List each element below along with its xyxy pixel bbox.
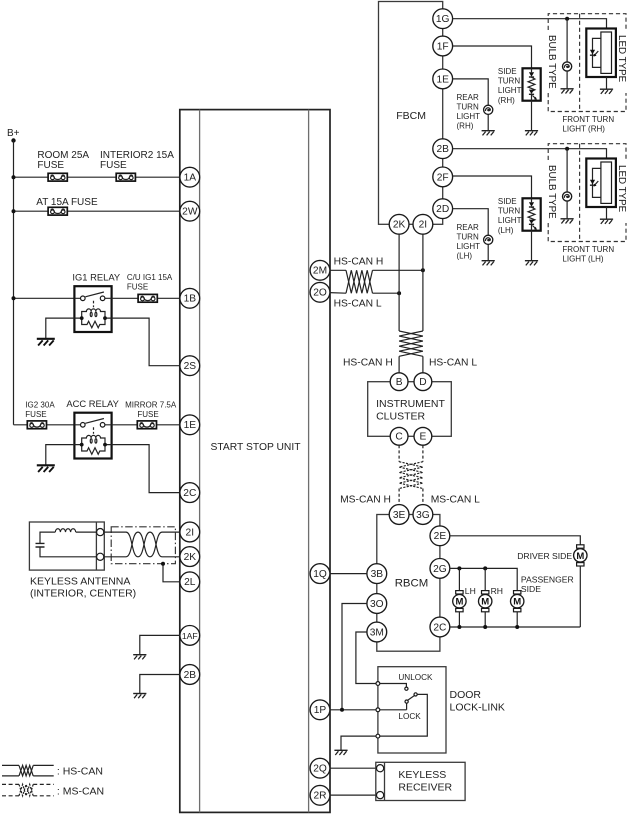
svg-text:2I: 2I xyxy=(186,527,195,538)
RBCM pin 2C xyxy=(430,617,450,637)
wire B+ rail xyxy=(13,141,15,425)
twisted pair antenna to 2I/2K xyxy=(104,532,180,557)
FBCM pin 2F xyxy=(433,167,453,187)
svg-text:LIGHT: LIGHT xyxy=(498,86,522,95)
svg-text:2M: 2M xyxy=(313,266,327,277)
unit pin 2I xyxy=(180,522,200,542)
svg-text:KEYLESS ANTENNA: KEYLESS ANTENNA xyxy=(30,575,130,587)
dashed box bulb/led type (RH) xyxy=(548,14,626,112)
svg-text:IG2 30A: IG2 30A xyxy=(25,401,55,410)
unit pin 2M xyxy=(310,260,330,280)
svg-text:LIGHT: LIGHT xyxy=(498,216,522,225)
bulb rear turn light (LH) xyxy=(484,235,493,244)
svg-text:TURN: TURN xyxy=(457,102,479,111)
unit pin 2O xyxy=(310,282,330,302)
wire FBCM to front turn light (LH) xyxy=(452,149,606,159)
unit pin 1A xyxy=(180,167,200,187)
wire ACC coil to 2C xyxy=(112,445,181,493)
unit pin 2S xyxy=(180,356,200,376)
svg-text:2K: 2K xyxy=(184,552,197,563)
antenna terminal xyxy=(97,553,104,560)
wire switch to lock return xyxy=(380,694,428,736)
unit pin 1AF xyxy=(180,626,200,646)
twisted pair HS-CAN xyxy=(346,270,373,293)
junction 1P / 3O xyxy=(340,708,344,712)
RBCM pin 2G xyxy=(430,559,450,579)
FBCM pin 2B xyxy=(433,139,453,159)
svg-text:3E: 3E xyxy=(393,510,406,521)
motor door lock LH xyxy=(453,591,466,612)
svg-text:2K: 2K xyxy=(393,220,406,231)
svg-text:REAR: REAR xyxy=(457,93,479,102)
antenna terminal xyxy=(97,529,104,536)
ground bulb (RH) xyxy=(561,89,574,94)
svg-text:CLUSTER: CLUSTER xyxy=(376,411,425,423)
junction bulb branch (LH) xyxy=(565,147,569,151)
LED unit front turn light (LH) xyxy=(586,159,616,208)
wire unlock contact to switch xyxy=(380,684,407,688)
svg-text:FUSE: FUSE xyxy=(37,160,64,171)
fuse MIRROR 7.5A xyxy=(137,421,156,429)
wire common to switch pivot xyxy=(380,703,407,710)
FBCM pin 2K xyxy=(389,214,409,234)
wire FBCM to rear turn light (RH) xyxy=(452,79,488,105)
wire capacitor to pin xyxy=(40,547,97,557)
svg-text:LOCK: LOCK xyxy=(398,712,421,721)
ground ACC coil xyxy=(37,465,55,472)
wire driver motor to 2C row xyxy=(579,566,581,628)
wire 2Q to receiver xyxy=(330,767,377,769)
svg-text:1P: 1P xyxy=(314,705,327,716)
fuse ROOM 25A xyxy=(48,173,67,181)
fuse AT 15A xyxy=(48,207,67,215)
unit pin 2B xyxy=(180,665,200,685)
svg-text:(RH): (RH) xyxy=(457,122,474,131)
start stop unit U1 box xyxy=(180,110,330,813)
svg-text:BULB TYPE: BULB TYPE xyxy=(546,165,557,219)
svg-text:2C: 2C xyxy=(183,488,196,499)
svg-text:TURN: TURN xyxy=(498,77,520,86)
svg-text:REAR: REAR xyxy=(457,223,479,232)
unit pin 1Q xyxy=(310,564,330,584)
svg-text:SIDE: SIDE xyxy=(498,67,517,76)
wire rear bulb to ground xyxy=(487,244,489,260)
fuse INTERIOR2 15A xyxy=(116,173,135,181)
ground 2B xyxy=(133,694,146,699)
shield box (dash-dot) xyxy=(111,527,175,564)
unit pin 1P xyxy=(310,700,330,720)
FBCM box xyxy=(379,2,443,225)
motor door lock RH xyxy=(479,591,492,612)
wire side light to ground xyxy=(531,231,533,261)
wire FBCM 2K down xyxy=(398,234,400,331)
wire 2G to motors xyxy=(450,568,518,590)
svg-text:3G: 3G xyxy=(416,510,430,521)
svg-text:SIDE: SIDE xyxy=(498,197,517,206)
wire 2O HS-CAN L xyxy=(330,292,346,295)
side turn light unit (LH) xyxy=(523,198,541,230)
svg-text:KEYLESS: KEYLESS xyxy=(398,769,446,781)
ground LED (RH) xyxy=(600,89,613,94)
svg-text:IG1 RELAY: IG1 RELAY xyxy=(72,271,121,282)
svg-text:2S: 2S xyxy=(184,361,197,372)
svg-text:LH: LH xyxy=(465,586,476,596)
keyless antenna box xyxy=(29,522,104,570)
wire HS-CAN L to node xyxy=(373,292,400,294)
door lock-link terminal xyxy=(376,682,380,686)
svg-text:2I: 2I xyxy=(419,220,428,231)
wire cluster C down dashed xyxy=(398,445,400,462)
svg-text:(RH): (RH) xyxy=(498,96,515,105)
wire 1P to lock common xyxy=(330,709,376,711)
wire fuse row to 1A xyxy=(14,176,181,178)
wire 2L to shield xyxy=(163,564,180,582)
FBCM pin 1E xyxy=(433,69,453,89)
svg-text:B: B xyxy=(396,377,403,388)
wire xyxy=(2,775,54,777)
svg-text:TURN: TURN xyxy=(457,232,479,241)
svg-text:PASSENGER: PASSENGER xyxy=(521,574,574,584)
svg-text:1E: 1E xyxy=(436,74,449,85)
wire 2M HS-CAN H xyxy=(330,269,346,271)
wire cluster E down dashed xyxy=(422,445,424,462)
wire to cluster D xyxy=(422,356,424,373)
ground rear light (LH) xyxy=(482,261,495,266)
svg-text:2Q: 2Q xyxy=(313,764,327,775)
svg-text:M: M xyxy=(513,597,521,608)
svg-text:AT 15A FUSE: AT 15A FUSE xyxy=(36,197,98,208)
switch pivot contact xyxy=(405,700,408,703)
svg-text:C: C xyxy=(395,432,402,443)
RBCM pin 3G xyxy=(413,505,433,525)
svg-text:START STOP UNIT: START STOP UNIT xyxy=(211,442,302,453)
svg-text:2D: 2D xyxy=(436,204,449,215)
relay ACC xyxy=(74,413,111,459)
node B+ dot xyxy=(11,138,15,142)
ground side light (RH) xyxy=(525,131,538,136)
motor door lock driver side xyxy=(574,545,587,566)
keyless receiver box xyxy=(376,762,465,800)
svg-text:MS-CAN L: MS-CAN L xyxy=(431,494,480,505)
wire to RH motor xyxy=(484,568,486,590)
cluster pin C xyxy=(390,427,408,445)
motor door lock passenger side xyxy=(511,591,524,612)
wire 2E to driver motor xyxy=(450,536,581,545)
wire to LH motor xyxy=(458,568,460,590)
ground rear light (RH) xyxy=(482,131,495,136)
door lock-link terminal xyxy=(376,734,380,738)
wire FBCM to side turn light (RH) xyxy=(452,46,531,68)
svg-text:B+: B+ xyxy=(7,128,20,139)
wire ACC relay to 1E xyxy=(112,424,181,426)
junction 2G / LH motor xyxy=(457,566,461,570)
svg-text:FUSE: FUSE xyxy=(137,410,158,419)
svg-text:1F: 1F xyxy=(437,41,449,52)
unit pin 2R xyxy=(310,785,330,805)
svg-text:3B: 3B xyxy=(371,569,384,580)
wire LH motor down xyxy=(458,612,460,627)
svg-text:TURN: TURN xyxy=(498,207,520,216)
fuse IG2 30A xyxy=(27,421,46,429)
legend MS-CAN twist xyxy=(19,784,33,795)
junction shield / 2L xyxy=(161,562,165,566)
legend HS-CAN wire pair xyxy=(2,764,54,766)
svg-text:LIGHT: LIGHT xyxy=(457,242,481,251)
wire LED to ground xyxy=(606,207,608,219)
svg-text:RH: RH xyxy=(491,586,503,596)
svg-text:1E: 1E xyxy=(184,420,197,431)
unit pin 1E xyxy=(180,415,200,435)
svg-text:3O: 3O xyxy=(370,599,384,610)
svg-text:2G: 2G xyxy=(433,564,447,575)
wire B+ to ACC relay xyxy=(14,424,75,426)
svg-text:FRONT TURN: FRONT TURN xyxy=(562,245,614,254)
door lock-link box xyxy=(378,667,446,753)
wire to RBCM 3E dashed xyxy=(398,489,400,506)
wire 2B to ground xyxy=(140,675,180,694)
wire AT fuse row to 2W xyxy=(14,210,181,212)
junction 2C / passenger motor xyxy=(515,625,519,629)
svg-text:FBCM: FBCM xyxy=(396,110,426,122)
svg-text:HS-CAN H: HS-CAN H xyxy=(343,358,393,369)
wire 3M to unlock contact xyxy=(356,632,376,684)
svg-text:1Q: 1Q xyxy=(313,569,327,580)
instrument cluster box xyxy=(368,382,452,437)
junction 2G / RH motor xyxy=(483,566,487,570)
svg-text:2C: 2C xyxy=(433,622,446,633)
FBCM pin 1G xyxy=(433,9,453,29)
svg-text:RECEIVER: RECEIVER xyxy=(398,781,452,793)
wire HS-CAN H to node xyxy=(373,269,423,271)
svg-text:: MS-CAN: : MS-CAN xyxy=(57,786,104,798)
dashed box bulb/led type (LH) xyxy=(548,144,626,242)
svg-text:LED TYPE: LED TYPE xyxy=(616,35,627,83)
wire 3O to lock common xyxy=(342,604,367,710)
wire coil to capacitor xyxy=(40,532,55,543)
switch moving contact xyxy=(414,693,417,696)
wire FBCM to front turn light (RH) xyxy=(452,19,606,29)
svg-text:2F: 2F xyxy=(437,172,449,183)
svg-text:LOCK-LINK: LOCK-LINK xyxy=(450,702,505,714)
unit pin 2L xyxy=(180,572,200,592)
junction B+ / 1A row xyxy=(12,175,16,179)
wire 2R to receiver xyxy=(330,794,377,796)
svg-text:MS-CAN H: MS-CAN H xyxy=(340,494,391,505)
wire RH motor down xyxy=(484,612,486,627)
wire IG1 relay to 1B xyxy=(112,297,181,299)
junction HS-CAN L xyxy=(397,291,401,295)
svg-text:LIGHT: LIGHT xyxy=(457,112,481,121)
ground 1AF xyxy=(133,655,146,660)
ground side light (LH) xyxy=(525,261,538,266)
svg-text:M: M xyxy=(576,551,584,562)
svg-text:UNLOCK: UNLOCK xyxy=(398,673,433,682)
svg-text:FUSE: FUSE xyxy=(100,160,127,171)
RBCM pin 3M xyxy=(367,622,387,642)
wire rear bulb to ground xyxy=(487,114,489,130)
legend MS-CAN wire pair xyxy=(2,784,54,795)
svg-text:1G: 1G xyxy=(436,14,450,25)
svg-text:RBCM: RBCM xyxy=(395,578,429,590)
fuse C/U IG1 15A xyxy=(138,294,157,302)
svg-text:C/U IG1 15A: C/U IG1 15A xyxy=(127,273,173,282)
svg-text:2R: 2R xyxy=(313,791,326,802)
side turn light unit (RH) xyxy=(523,68,541,100)
RBCM pin 2E xyxy=(430,526,450,546)
svg-text:LIGHT (LH): LIGHT (LH) xyxy=(562,255,604,264)
svg-text:1A: 1A xyxy=(184,173,197,184)
switch contact xyxy=(405,687,408,690)
antenna coil L1 xyxy=(55,529,96,532)
unit pin 2K xyxy=(180,547,200,567)
RBCM pin 3B xyxy=(367,564,387,584)
bulb front turn light (LH) xyxy=(563,192,572,201)
switch blade xyxy=(408,696,415,701)
junction bulb branch (RH) xyxy=(565,17,569,21)
svg-text:M: M xyxy=(481,597,489,608)
FBCM pin 1F xyxy=(433,36,453,56)
svg-text:FUSE: FUSE xyxy=(127,283,148,292)
svg-text:HS-CAN L: HS-CAN L xyxy=(429,358,477,369)
ground bulb (LH) xyxy=(561,219,574,224)
bulb front turn light (RH) xyxy=(563,62,572,71)
wire IG1 coil to ground xyxy=(46,318,75,339)
wire 2C common xyxy=(450,626,581,628)
svg-text:2E: 2E xyxy=(434,531,447,542)
wire IG1 coil to 2S xyxy=(112,318,181,366)
svg-text:(INTERIOR, CENTER): (INTERIOR, CENTER) xyxy=(30,587,136,599)
svg-text:HS-CAN L: HS-CAN L xyxy=(334,299,382,310)
junction B+ / IG1 row xyxy=(12,296,16,300)
wire B+ to IG1 relay xyxy=(14,297,75,299)
door lock-link terminal xyxy=(376,708,380,712)
junction 2C / LH motor xyxy=(457,625,461,629)
wire passenger motor down xyxy=(516,612,518,627)
junction 2C / RH motor xyxy=(483,625,487,629)
cluster pin B xyxy=(390,373,408,391)
wire bulb to ground xyxy=(566,71,568,88)
wire to bulb (LH) xyxy=(566,149,568,192)
wire to RBCM 3G dashed xyxy=(422,489,424,506)
svg-text:M: M xyxy=(455,597,463,608)
unit pin 2Q xyxy=(310,758,330,778)
svg-text:E: E xyxy=(420,432,427,443)
wire side light to ground xyxy=(531,101,533,131)
RBCM pin 3O xyxy=(367,594,387,614)
svg-text:BULB TYPE: BULB TYPE xyxy=(546,35,557,89)
svg-text:1AF: 1AF xyxy=(182,631,198,641)
svg-text:2B: 2B xyxy=(184,670,197,681)
RBCM pin 3E xyxy=(389,505,409,525)
unit pin 2C xyxy=(180,483,200,503)
ground IG1 coil xyxy=(37,339,55,346)
wire 1AF to ground xyxy=(140,635,180,654)
svg-text:(LH): (LH) xyxy=(498,226,514,235)
FBCM pin 2D xyxy=(433,199,453,219)
LED unit front turn light (RH) xyxy=(586,29,616,78)
twisted pair MS-CAN xyxy=(399,462,423,489)
legend HS-CAN twist xyxy=(19,765,33,776)
cluster pin D xyxy=(414,373,432,391)
svg-text:DRIVER SIDE: DRIVER SIDE xyxy=(517,551,572,561)
svg-text:MIRROR 7.5A: MIRROR 7.5A xyxy=(125,401,177,410)
wire FBCM to side turn light (LH) xyxy=(452,176,531,198)
receiver terminal xyxy=(377,792,384,799)
relay IG1 xyxy=(74,286,111,332)
receiver terminal xyxy=(377,765,384,772)
svg-text:SIDE: SIDE xyxy=(521,584,541,594)
svg-text:: HS-CAN: : HS-CAN xyxy=(57,765,103,777)
ground LED (LH) xyxy=(600,219,613,224)
wire FBCM to rear turn light (LH) xyxy=(452,209,488,236)
svg-text:(LH): (LH) xyxy=(457,252,473,261)
svg-text:INSTRUMENT: INSTRUMENT xyxy=(376,398,445,410)
wire to bulb (RH) xyxy=(566,19,568,62)
wire FBCM 2I down xyxy=(422,234,424,331)
unit pin 1B xyxy=(180,288,200,308)
bulb rear turn light (RH) xyxy=(484,105,493,114)
wire bulb to ground xyxy=(566,201,568,218)
ground door lock-link xyxy=(334,750,347,755)
svg-text:1B: 1B xyxy=(184,294,197,305)
antenna capacitor C1 xyxy=(36,543,45,547)
svg-text:2O: 2O xyxy=(313,288,327,299)
svg-text:ACC RELAY: ACC RELAY xyxy=(66,398,119,409)
wire ACC coil to ground xyxy=(46,445,75,466)
wire LED to ground xyxy=(606,77,608,89)
wire 1Q to 3B xyxy=(330,573,368,575)
svg-text:2L: 2L xyxy=(184,577,196,588)
svg-text:FUSE: FUSE xyxy=(25,410,46,419)
cluster pin E xyxy=(414,427,432,445)
junction HS-CAN H xyxy=(421,268,425,272)
svg-text:LED TYPE: LED TYPE xyxy=(616,165,627,213)
unit pin 2W xyxy=(180,201,200,221)
FBCM pin 2I xyxy=(413,214,433,234)
RBCM box xyxy=(377,515,440,652)
twisted pair HS-CAN vertical xyxy=(399,331,423,356)
svg-text:2B: 2B xyxy=(436,144,449,155)
wire lock return to ground xyxy=(341,736,376,750)
svg-text:3M: 3M xyxy=(370,627,384,638)
svg-text:LIGHT (RH): LIGHT (RH) xyxy=(562,125,605,134)
wire to cluster B xyxy=(398,356,400,373)
svg-text:2W: 2W xyxy=(182,207,198,218)
junction B+ / 2W row xyxy=(12,209,16,213)
svg-text:DOOR: DOOR xyxy=(450,689,482,701)
svg-text:HS-CAN H: HS-CAN H xyxy=(334,256,384,267)
svg-text:FRONT TURN: FRONT TURN xyxy=(562,115,614,124)
svg-text:D: D xyxy=(419,377,426,388)
